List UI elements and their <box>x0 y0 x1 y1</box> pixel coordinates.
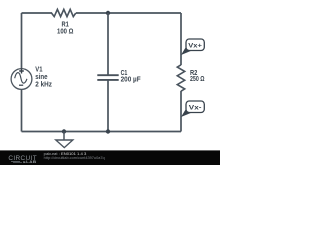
ground <box>56 132 73 148</box>
svg-text:▸LAB: ▸LAB <box>22 160 37 164</box>
svg-text:Vx+: Vx+ <box>188 43 202 50</box>
resistor R2 <box>177 65 204 91</box>
svg-text:http://circuitlab.com/cunt4397: http://circuitlab.com/cunt4397u0a7q <box>44 156 105 160</box>
node junction at ground <box>62 129 66 133</box>
flag Vx+ <box>181 39 204 55</box>
CircuitLab logo <box>8 155 37 164</box>
svg-text:250 Ω: 250 Ω <box>190 74 205 83</box>
wire: bottom horizontal <box>22 131 182 133</box>
capacitor C1 <box>97 68 141 83</box>
wire: top, from R1 to top-right corner <box>76 12 181 14</box>
footer bar <box>0 150 220 165</box>
resistor R1 <box>52 9 76 35</box>
wire: right vertical above R2 <box>180 13 182 65</box>
wire: capacitor branch lower <box>107 81 109 132</box>
svg-text:100 Ω: 100 Ω <box>57 27 74 36</box>
node junction at capacitor top <box>106 11 110 15</box>
svg-text:2 kHz: 2 kHz <box>35 80 52 89</box>
svg-text:Vx-: Vx- <box>189 105 202 112</box>
wire: right vertical below R2 <box>180 91 182 132</box>
wire: left vertical below V1 <box>21 89 23 131</box>
wire: left vertical above V1 <box>21 13 23 69</box>
voltage source V1 <box>11 65 52 90</box>
wire: capacitor branch upper <box>107 13 109 75</box>
flag Vx- <box>181 101 204 117</box>
node junction at capacitor bottom <box>106 129 110 133</box>
svg-text:200 µF: 200 µF <box>121 75 142 84</box>
wire: top, left segment from top-left corner to R1 <box>22 12 53 14</box>
